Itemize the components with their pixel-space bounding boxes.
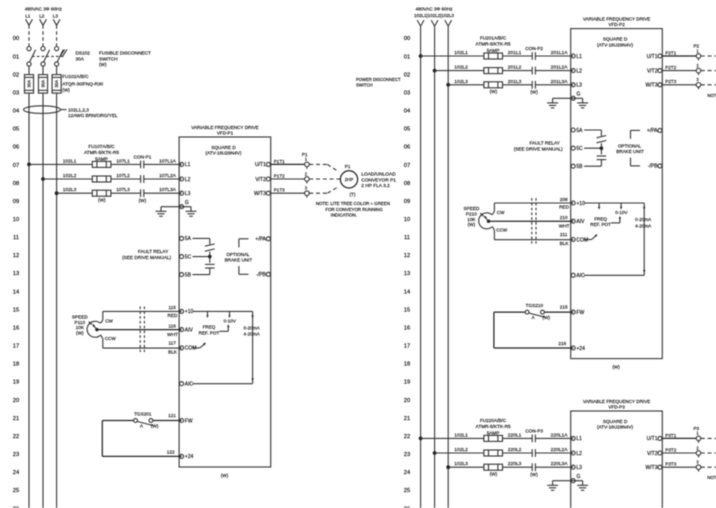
svg-text:102L1|102L2|102L3: 102L1|102L2|102L3 [414, 13, 454, 18]
svg-text:COM: COM [185, 346, 197, 352]
switch TGS210 run contact [494, 310, 573, 317]
svg-text:G: G [577, 474, 581, 480]
svg-text:201L3A: 201L3A [551, 79, 569, 85]
bus wire L2 switch to fuse [42, 66, 44, 75]
svg-text:-/PB: -/PB [648, 164, 658, 170]
svg-text:1: 1 [305, 157, 308, 162]
svg-text:P3: P3 [693, 426, 699, 431]
terminal L1 of VFD-P2 [571, 54, 582, 60]
wire 102L1 from bus to fuse FU220A (P3) [421, 437, 484, 439]
svg-text:OPTIONAL: OPTIONAL [618, 143, 642, 148]
svg-text:215: 215 [560, 305, 568, 310]
terminal L3 of VFD-P2 [571, 83, 582, 89]
wire 210 WHT pot wiper to AIV [489, 220, 574, 222]
svg-text:05: 05 [13, 127, 19, 133]
svg-text:30A: 30A [41, 80, 46, 88]
svg-text:10: 10 [404, 217, 410, 223]
svg-text:P1T1: P1T1 [274, 159, 285, 164]
VFD drive enclosure VFD-P3 [571, 411, 663, 508]
bus wire L3 switch to fuse [56, 66, 58, 75]
wire 201L1A connector to drive terminal L1 (P2) [535, 55, 573, 57]
fuse FU107B [92, 176, 111, 182]
svg-text:23: 23 [404, 452, 410, 458]
bus line 102L1 (left section) [28, 93, 30, 508]
svg-text:L3: L3 [185, 191, 191, 197]
svg-text:FREQ: FREQ [203, 325, 216, 330]
terminal FW of VFD-P1 [180, 418, 193, 424]
label SQUARE D model [597, 36, 634, 47]
node 102L2 tap junction P2 [433, 69, 437, 73]
terminal AIV of VFD-P1 [180, 327, 194, 333]
wire 107L1A connector to drive terminal L1 (P1) [144, 163, 182, 165]
svg-text:L2: L2 [185, 177, 191, 183]
optional brake unit bracket [631, 130, 641, 166]
wire label 208 RED [559, 197, 570, 210]
label VARIABLE FREQUENCY DRIVE VFD-P2 [583, 16, 650, 27]
internal wiper arrow to 0-10V [220, 324, 230, 331]
wire label 211 BLK [560, 232, 570, 246]
svg-text:ATQR-30/FNQ-R30: ATQR-30/FNQ-R30 [62, 81, 103, 86]
node 102L2 tap junction P3 [433, 451, 437, 455]
fuse group label FU220A/B/C [476, 418, 511, 435]
wire contact to node 5C [193, 252, 210, 257]
svg-text:AIV: AIV [185, 327, 194, 333]
svg-text:16: 16 [404, 326, 410, 332]
connector P2 pin 3 [696, 77, 701, 89]
wire dashed P3T1 to motor [701, 438, 716, 446]
optional brake unit bracket [239, 239, 249, 274]
svg-text:5AMP: 5AMP [487, 430, 500, 435]
node 102L3 tap junction P2 [446, 83, 450, 87]
svg-text:(W): (W) [62, 87, 70, 92]
svg-text:(W): (W) [139, 198, 147, 203]
svg-text:FU107A/B/C: FU107A/B/C [88, 144, 115, 149]
svg-text:30A: 30A [76, 56, 85, 61]
terminal U/T1 of VFD-P2 [647, 54, 662, 60]
fuse FU102C 30A [52, 75, 61, 94]
svg-text:2: 2 [305, 171, 308, 176]
svg-text:BLK: BLK [168, 349, 178, 354]
svg-text:107L2: 107L2 [116, 173, 130, 179]
svg-text:RED: RED [168, 313, 179, 318]
svg-text:14: 14 [13, 289, 20, 295]
svg-text:11: 11 [13, 235, 19, 241]
svg-text:117: 117 [168, 341, 176, 346]
terminal L2 of VFD-P3 [571, 451, 582, 457]
svg-text:102L1: 102L1 [454, 50, 468, 56]
svg-text:P3T3: P3T3 [665, 462, 676, 467]
svg-text:5A: 5A [185, 236, 192, 242]
node 102L3 tap junction P1 [55, 191, 59, 195]
svg-text:16: 16 [13, 326, 19, 332]
svg-text:CW: CW [105, 318, 113, 323]
svg-text:NOTE: LITE TREE COLOR = GREEN: NOTE: LITE TREE COLOR = GREEN [316, 201, 390, 206]
svg-text:NOTE: LITE TREE COLOR = GREEN: NOTE: LITE TREE COLOR = GREEN [707, 475, 716, 480]
svg-text:211: 211 [560, 232, 568, 237]
connector CON-P2 pin 3 [532, 81, 535, 89]
wire contact to node 5C [584, 143, 601, 148]
internal wire +10 to selector [193, 310, 253, 312]
svg-text:13: 13 [13, 271, 19, 277]
svg-text:13: 13 [404, 271, 410, 277]
wire 107L2A connector to drive terminal L2 (P1) [144, 178, 182, 180]
svg-text:(ATV-16U29N4V): (ATV-16U29N4V) [597, 42, 634, 47]
wire 5A to fault relay contact [584, 130, 601, 136]
node 102L1 tap junction P2 [419, 54, 423, 58]
connector CON-P1 pin 2 [141, 175, 144, 183]
svg-text:5C: 5C [576, 146, 583, 152]
fuse group label FU201A/B/C [476, 36, 511, 53]
terminal +/PA of VFD-P2 [647, 128, 662, 134]
disconnect switch DS102 pole 3 [55, 47, 64, 67]
svg-text:01: 01 [13, 54, 19, 60]
ground (chassis, right) [577, 103, 588, 108]
svg-text:220L3A: 220L3A [551, 461, 569, 467]
terminal +10 of VFD-P1 [180, 309, 194, 315]
wire dashed P2T3 to motor [701, 78, 716, 85]
label SPEED pot P210 [463, 206, 480, 227]
terminal FW of VFD-P2 [571, 310, 584, 316]
svg-text:14: 14 [404, 289, 411, 295]
svg-text:U/T1: U/T1 [647, 54, 658, 60]
svg-text:102L3: 102L3 [454, 79, 468, 85]
ground (chassis, right) [186, 211, 197, 216]
svg-text:25: 25 [13, 488, 19, 494]
svg-text:FU102A/B/C: FU102A/B/C [62, 74, 89, 79]
svg-text:102L1: 102L1 [454, 432, 468, 438]
svg-text:201L1A: 201L1A [551, 50, 569, 56]
shielded cable marker [140, 307, 144, 353]
svg-text:AIV: AIV [576, 219, 585, 225]
svg-text:1: 1 [696, 431, 699, 436]
svg-text:CW: CW [497, 210, 505, 215]
svg-text:NOTE: LITE TREE COLOR = GREEN: NOTE: LITE TREE COLOR = GREEN [707, 93, 716, 98]
connector CON-P2 pin 2 [532, 67, 535, 75]
svg-text:P3T1: P3T1 [665, 433, 676, 438]
terminal AIC of VFD-P2 [571, 273, 585, 279]
internal range select line [643, 203, 645, 275]
wire 220L1 fuse to connector (P3) [503, 437, 533, 439]
wire 107L2 fuse to connector (P1) [111, 178, 141, 180]
svg-text:+10: +10 [185, 309, 194, 315]
svg-text:102L2: 102L2 [63, 173, 77, 179]
svg-text:AIC: AIC [576, 273, 585, 279]
connector P3 pin 1 [696, 431, 701, 443]
label FAULT RELAY [514, 141, 563, 152]
selector arrow 2 0-10V [228, 311, 230, 318]
wire 220L2 fuse to connector (P3) [503, 452, 533, 454]
wire P3T1 drive to connector pin [662, 437, 696, 439]
wire P3T3 drive to connector pin [662, 466, 696, 468]
svg-text:P3T2: P3T2 [665, 447, 676, 452]
incoming line arrow 102L3 (right) [445, 20, 452, 26]
fuse FU102A 30A [24, 75, 33, 94]
fuse FU102B 30A [38, 75, 47, 94]
svg-text:3: 3 [696, 77, 699, 82]
svg-text:G: G [577, 92, 581, 98]
fuse FU220B [484, 450, 503, 456]
svg-text:L2: L2 [576, 451, 582, 457]
connector CON-P3 pin 1 [532, 435, 535, 443]
ground (earth, left) [547, 103, 558, 108]
svg-text:102L1: 102L1 [63, 158, 77, 164]
svg-text:5AMP: 5AMP [487, 48, 500, 53]
disconnect switch DS102 pole 1 [27, 47, 36, 67]
svg-text:00: 00 [404, 36, 410, 42]
terminal 5C of VFD-P2 [571, 146, 583, 152]
svg-text:TGS201: TGS201 [134, 411, 152, 416]
svg-text:L1: L1 [576, 54, 582, 60]
svg-text:04: 04 [13, 109, 20, 115]
wire P1T1 drive to connector pin [271, 163, 305, 165]
svg-text:TGS210: TGS210 [526, 303, 544, 308]
svg-text:115: 115 [168, 305, 176, 310]
svg-text:L2: L2 [576, 68, 582, 74]
wire dashed P1T2 to motor [309, 178, 340, 180]
svg-text:L1: L1 [576, 436, 582, 442]
pot CW terminal stub [492, 210, 505, 215]
svg-text:(SEE DRIVE MANUAL): (SEE DRIVE MANUAL) [122, 255, 171, 260]
internal wire +10 to selector [584, 202, 644, 204]
svg-text:08: 08 [13, 181, 19, 187]
selector arrow 1 [206, 311, 208, 318]
svg-text:+24: +24 [576, 346, 585, 352]
VFD drive enclosure VFD-P2 [571, 29, 663, 359]
svg-text:216: 216 [558, 341, 566, 346]
svg-text:5C: 5C [185, 254, 192, 260]
label DS102 30A [76, 51, 91, 62]
wire 201L2 fuse to connector (P2) [503, 70, 533, 72]
svg-text:122: 122 [167, 449, 175, 454]
svg-text:+/PA: +/PA [255, 237, 266, 243]
disconnect switch DS102 pole 2 [41, 47, 50, 67]
wire P2T2 drive to connector pin [662, 70, 696, 72]
node 102L3 tap junction P3 [446, 465, 450, 469]
terminal L1 of VFD-P1 [180, 162, 191, 168]
svg-text:P1T2: P1T2 [274, 173, 285, 178]
wire dashed P2T2 to motor [701, 70, 716, 72]
svg-text:107L3A: 107L3A [159, 187, 177, 193]
fuse FU220C [484, 464, 503, 470]
wire 220L3 fuse to connector (P3) [503, 466, 533, 468]
label FREQ REF. POT [590, 216, 611, 227]
svg-text:+10: +10 [576, 201, 585, 207]
wire 107L1 fuse to connector (P1) [111, 163, 141, 165]
svg-text:+24: +24 [185, 454, 194, 460]
node 5C junction [600, 146, 604, 150]
incoming line arrow 102L2 (right) [431, 20, 438, 26]
label SPEED pot P110 [72, 314, 89, 335]
svg-text:05: 05 [404, 127, 410, 133]
svg-text:V/T2: V/T2 [647, 451, 658, 457]
ground (earth, left) [156, 211, 167, 216]
svg-text:5AMP: 5AMP [95, 156, 108, 161]
svg-text:LOAD/UNLOAD: LOAD/UNLOAD [361, 172, 396, 178]
wire 201L1 fuse to connector (P2) [503, 55, 533, 57]
svg-text:VARIABLE FREQUENCY DRIVE: VARIABLE FREQUENCY DRIVE [583, 399, 650, 404]
internal range select line [251, 311, 253, 383]
selector arrow 1 [598, 203, 600, 210]
svg-text:15: 15 [404, 307, 410, 313]
switch TGS201 run contact [102, 419, 181, 426]
label FU102A/B/C [62, 74, 103, 92]
potentiometer P210 10K [479, 213, 492, 229]
svg-text:(W): (W) [151, 424, 159, 429]
connector P1 pin 3 [305, 186, 310, 198]
note lite tree color [707, 93, 716, 109]
wire dashed P3T3 to motor [701, 461, 716, 468]
wire label 116 WHT [167, 323, 178, 336]
fuse FU201B [484, 68, 503, 74]
connector P2 pin 1 [696, 48, 701, 60]
svg-text:107L2A: 107L2A [159, 173, 177, 179]
terminal 5A of VFD-P1 [180, 236, 192, 242]
wire 102L2 from bus to fuse FU220B (P3) [435, 452, 484, 454]
svg-text:(W): (W) [490, 472, 498, 477]
terminal AIC of VFD-P1 [180, 382, 194, 388]
wire label 115 RED [168, 305, 179, 318]
incoming line arrow L1 [26, 19, 33, 25]
svg-text:FUSIBLE DISCONNECT: FUSIBLE DISCONNECT [99, 51, 151, 56]
svg-text:24: 24 [404, 470, 411, 476]
bus line 102L3 (right section) [447, 26, 449, 508]
svg-text:5B: 5B [185, 272, 192, 278]
wire 102L1 from bus to fuse FU107A (P1) [29, 163, 92, 165]
svg-text:INDICATION.: INDICATION. [331, 213, 357, 218]
svg-text:VARIABLE FREQUENCY DRIVE: VARIABLE FREQUENCY DRIVE [583, 16, 650, 21]
svg-text:P210: P210 [466, 211, 477, 216]
svg-text:SPEED: SPEED [72, 314, 89, 319]
terminal COM of VFD-P2 [571, 237, 588, 243]
internal wiper arrow to 0-10V [611, 216, 621, 223]
svg-text:WHT: WHT [559, 223, 570, 228]
connector CON-P1 pin 1 [141, 161, 144, 169]
svg-text:U/T1: U/T1 [255, 162, 266, 168]
connector CON-P2 pin 1 [532, 52, 535, 60]
node 102L1 tap junction P3 [419, 437, 423, 441]
svg-text:WHT: WHT [167, 332, 178, 337]
svg-text:01: 01 [404, 54, 410, 60]
svg-text:12: 12 [404, 253, 410, 259]
wire dashed P2T1 to motor [701, 56, 716, 64]
node 102L2 tap junction P1 [41, 177, 45, 181]
svg-text:2HP: 2HP [345, 177, 354, 182]
svg-text:FREQ: FREQ [594, 216, 607, 221]
wire 107L3 fuse to connector (P1) [111, 192, 141, 194]
node 5C junction [208, 255, 212, 259]
svg-text:CON-P2: CON-P2 [525, 46, 543, 51]
svg-text:W/T3: W/T3 [646, 465, 658, 471]
wire dashed feed L3 to disconnect [56, 25, 58, 46]
terminal -/PB of VFD-P2 [648, 164, 662, 170]
wire 216 switch return to +24 [494, 312, 573, 348]
svg-text:15: 15 [13, 307, 19, 313]
svg-text:V/T2: V/T2 [647, 68, 658, 74]
wire 102L3 from bus to fuse FU220C (P3) [448, 466, 484, 468]
terminal L1 of VFD-P3 [571, 436, 582, 442]
svg-text:08: 08 [404, 181, 410, 187]
svg-text:VFD-P1: VFD-P1 [217, 130, 234, 135]
pot CCW terminal stub [101, 335, 117, 341]
svg-text:10K: 10K [467, 217, 476, 222]
svg-text:P2T1: P2T1 [665, 50, 676, 55]
fault relay NO contact [597, 136, 607, 143]
wire dashed feed L2 to disconnect [42, 25, 44, 46]
internal wire COM arrow [193, 342, 207, 348]
VFD drive enclosure VFD-P1 [179, 137, 271, 467]
connector P1 pin 1 [305, 157, 310, 169]
svg-text:W/T3: W/T3 [646, 83, 658, 89]
svg-text:CON-P1: CON-P1 [134, 155, 152, 160]
incoming line arrow 102L1 (right) [417, 20, 424, 26]
note lite tree color [707, 475, 716, 491]
svg-text:20: 20 [404, 398, 410, 404]
fuse FU107C [92, 190, 111, 196]
selector arrow 2 0-10V [620, 203, 622, 210]
svg-text:19: 19 [404, 380, 410, 386]
svg-text:ATMR-5/KTK-R5: ATMR-5/KTK-R5 [84, 150, 119, 155]
connector P3 pin 2 [696, 445, 701, 457]
svg-text:FW: FW [576, 310, 584, 316]
svg-text:09: 09 [13, 199, 19, 205]
node 102L1 tap junction P1 [27, 163, 31, 167]
svg-text:5B: 5B [576, 164, 583, 170]
svg-text:FW: FW [185, 418, 193, 424]
svg-text:201L1: 201L1 [508, 50, 522, 56]
svg-text:07: 07 [13, 163, 19, 169]
svg-text:L1: L1 [185, 162, 191, 168]
wire 220L1A connector to drive terminal L1 (P3) [535, 437, 573, 439]
wire dashed P3T2 to motor [701, 452, 716, 454]
wire 201L3A connector to drive terminal L3 (P2) [535, 84, 573, 86]
wire 220L2A connector to drive terminal L2 (P3) [535, 452, 573, 454]
svg-text:201L3: 201L3 [508, 79, 522, 85]
terminal 5A of VFD-P2 [571, 128, 583, 134]
svg-text:102L1,2,3: 102L1,2,3 [68, 107, 89, 112]
svg-text:18: 18 [404, 362, 410, 368]
svg-text:17: 17 [13, 344, 19, 350]
svg-text:FAULT RELAY: FAULT RELAY [529, 141, 560, 146]
wire 201L3 fuse to connector (P2) [503, 84, 533, 86]
wire G terminal to earth grounds [161, 207, 191, 212]
svg-text:P1: P1 [345, 164, 351, 169]
terminal V/T2 of VFD-P3 [647, 451, 662, 457]
svg-text:L1: L1 [25, 14, 31, 19]
svg-text:2: 2 [696, 63, 699, 68]
svg-text:03: 03 [404, 90, 410, 96]
svg-text:(W): (W) [530, 90, 538, 95]
svg-text:11: 11 [404, 235, 410, 241]
fuse FU107A [92, 161, 111, 167]
label TGS210 [526, 303, 551, 320]
bus wire L1 switch to fuse [28, 66, 30, 75]
svg-text:BRAKE UNIT: BRAKE UNIT [616, 149, 644, 154]
incoming line arrow L3 [53, 19, 60, 25]
svg-text:10: 10 [13, 217, 19, 223]
label OPTIONAL BRAKE UNIT [616, 143, 644, 154]
svg-text:102L3: 102L3 [63, 187, 77, 193]
svg-text:06: 06 [13, 145, 19, 151]
terminal COM of VFD-P1 [180, 346, 197, 352]
cable marker oval 102L1,2,3 [24, 106, 67, 114]
svg-text:L3: L3 [576, 465, 582, 471]
label FAULT RELAY [122, 249, 171, 260]
fuse FU220A [484, 435, 503, 441]
svg-text:V/T2: V/T2 [255, 177, 266, 183]
wire G terminal to earth grounds [553, 98, 583, 103]
svg-text:3: 3 [305, 186, 308, 191]
label TGS201 [134, 411, 159, 428]
